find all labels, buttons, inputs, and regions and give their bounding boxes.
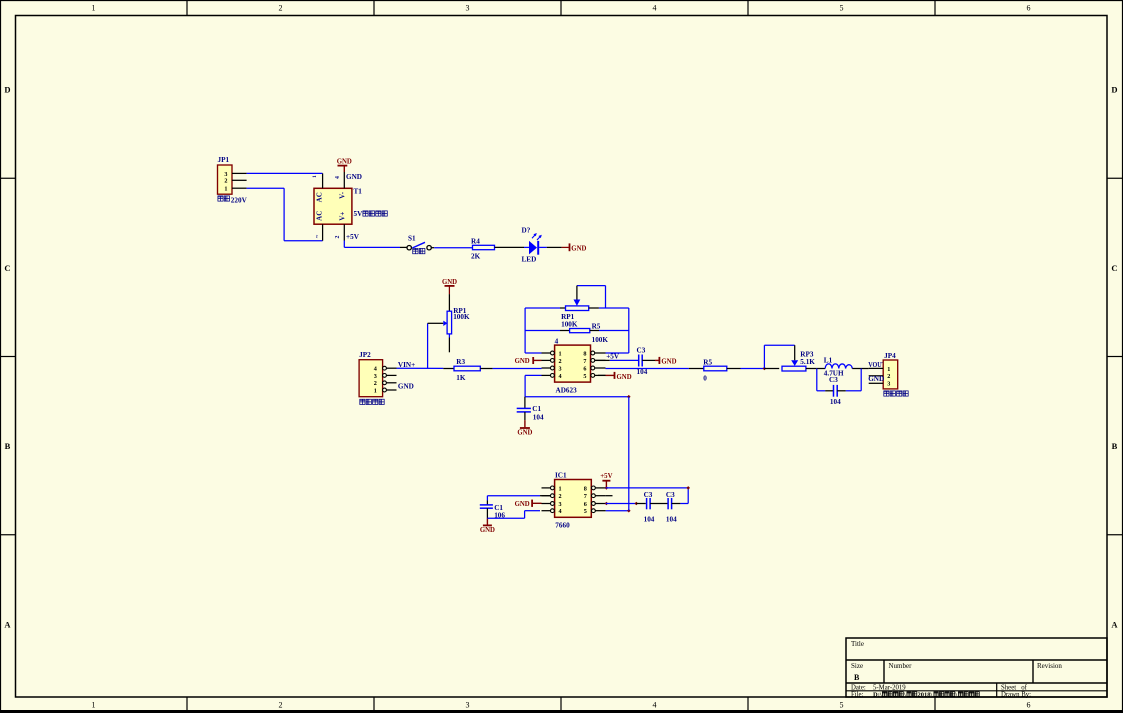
svg-text:5V: 5V bbox=[354, 210, 364, 218]
svg-text:220V: 220V bbox=[231, 196, 248, 204]
svg-text:6: 6 bbox=[1027, 4, 1031, 13]
svg-text:AC: AC bbox=[316, 211, 324, 221]
svg-text:2: 2 bbox=[559, 358, 562, 365]
svg-text:2: 2 bbox=[559, 493, 562, 500]
svg-text:A: A bbox=[1111, 619, 1118, 629]
svg-text:V+: V+ bbox=[339, 212, 347, 221]
svg-text:6: 6 bbox=[1027, 701, 1031, 710]
svg-text:100K: 100K bbox=[592, 336, 609, 344]
svg-text:C3: C3 bbox=[637, 347, 646, 355]
svg-text:GND: GND bbox=[346, 173, 362, 181]
svg-text:1: 1 bbox=[559, 485, 562, 492]
svg-text:GND: GND bbox=[515, 501, 530, 508]
svg-text:AC: AC bbox=[316, 192, 324, 202]
svg-text:4: 4 bbox=[374, 366, 377, 373]
svg-text:4: 4 bbox=[559, 373, 562, 380]
svg-text:5: 5 bbox=[840, 701, 844, 710]
svg-text:GND: GND bbox=[617, 374, 632, 381]
svg-text:4: 4 bbox=[653, 4, 657, 13]
svg-text:2: 2 bbox=[224, 178, 227, 185]
svg-text:JP2: JP2 bbox=[359, 351, 371, 359]
svg-text:+5V: +5V bbox=[606, 353, 620, 361]
svg-text:1: 1 bbox=[92, 701, 96, 710]
svg-text:S1: S1 bbox=[408, 235, 416, 243]
svg-text:3: 3 bbox=[466, 701, 470, 710]
svg-text:2: 2 bbox=[279, 4, 283, 13]
svg-text:\: \ bbox=[903, 691, 906, 698]
svg-text:C: C bbox=[4, 263, 10, 273]
svg-text:Size: Size bbox=[851, 662, 863, 670]
svg-text:Number: Number bbox=[889, 662, 913, 670]
svg-text:2018\: 2018\ bbox=[918, 691, 933, 698]
svg-text:7660: 7660 bbox=[555, 521, 570, 529]
svg-text:104: 104 bbox=[830, 398, 841, 406]
svg-text:4: 4 bbox=[653, 701, 657, 710]
svg-text:3: 3 bbox=[559, 501, 562, 508]
svg-text:1: 1 bbox=[312, 175, 318, 178]
svg-text:Revision: Revision bbox=[1037, 662, 1062, 670]
svg-text:D:\: D:\ bbox=[873, 691, 882, 698]
svg-text:2: 2 bbox=[374, 380, 377, 387]
svg-text:C3: C3 bbox=[666, 491, 675, 499]
svg-text:B: B bbox=[854, 673, 860, 682]
svg-text:GND: GND bbox=[571, 245, 586, 252]
svg-text:3: 3 bbox=[374, 373, 377, 380]
svg-text:1: 1 bbox=[887, 366, 890, 373]
svg-text:3: 3 bbox=[887, 381, 890, 388]
svg-text:104: 104 bbox=[666, 516, 677, 524]
svg-text:GND: GND bbox=[517, 430, 532, 437]
svg-text:C3: C3 bbox=[644, 491, 653, 499]
svg-text:+5V: +5V bbox=[346, 233, 360, 241]
svg-text:GND: GND bbox=[515, 358, 530, 365]
svg-text:L1: L1 bbox=[824, 356, 833, 364]
svg-text:3: 3 bbox=[466, 4, 470, 13]
svg-text:T1: T1 bbox=[354, 188, 363, 196]
svg-text:6: 6 bbox=[584, 501, 587, 508]
svg-text:B: B bbox=[1112, 441, 1118, 451]
svg-text:JP4: JP4 bbox=[884, 352, 896, 360]
svg-text:4: 4 bbox=[555, 337, 559, 345]
svg-text:104: 104 bbox=[637, 368, 648, 376]
svg-text:8: 8 bbox=[583, 350, 586, 357]
svg-text:R5: R5 bbox=[592, 322, 601, 330]
svg-text:GND: GND bbox=[661, 358, 676, 365]
svg-text:5: 5 bbox=[583, 373, 586, 380]
svg-text:D: D bbox=[4, 85, 10, 95]
svg-text:8: 8 bbox=[584, 485, 587, 492]
svg-text:GND: GND bbox=[868, 375, 884, 383]
svg-text:File:: File: bbox=[851, 691, 864, 698]
svg-text:Drawn By:: Drawn By: bbox=[1001, 691, 1031, 698]
svg-text:1: 1 bbox=[224, 186, 227, 193]
svg-text:5.1K: 5.1K bbox=[800, 358, 815, 366]
svg-text:C1: C1 bbox=[532, 405, 541, 413]
svg-text:AD623: AD623 bbox=[556, 386, 578, 394]
svg-text:2K: 2K bbox=[471, 253, 481, 261]
svg-text:\: \ bbox=[955, 691, 958, 698]
svg-text:JP1: JP1 bbox=[218, 156, 230, 164]
svg-text:0: 0 bbox=[703, 374, 707, 382]
svg-text:7: 7 bbox=[583, 358, 586, 365]
svg-text:4: 4 bbox=[559, 508, 562, 515]
svg-text:GND: GND bbox=[480, 527, 495, 534]
svg-text:GND: GND bbox=[398, 383, 414, 391]
svg-text:104: 104 bbox=[533, 413, 544, 421]
svg-text:R4: R4 bbox=[471, 237, 480, 245]
svg-text:LED: LED bbox=[522, 255, 537, 263]
svg-text:B: B bbox=[5, 441, 11, 451]
svg-text:A: A bbox=[4, 619, 11, 629]
svg-text:D?: D? bbox=[522, 227, 531, 235]
svg-text:100K: 100K bbox=[453, 313, 470, 321]
svg-text:Title: Title bbox=[851, 640, 864, 648]
svg-text:IC1: IC1 bbox=[555, 472, 567, 480]
svg-text:4: 4 bbox=[335, 176, 341, 179]
svg-text:C3: C3 bbox=[829, 376, 838, 384]
svg-text:+5V: +5V bbox=[600, 473, 612, 480]
svg-text:6: 6 bbox=[583, 365, 586, 372]
svg-text:5: 5 bbox=[584, 508, 587, 515]
svg-text:1: 1 bbox=[92, 4, 96, 13]
svg-text:1: 1 bbox=[559, 350, 562, 357]
svg-text:2: 2 bbox=[279, 701, 283, 710]
svg-text:R3: R3 bbox=[456, 358, 465, 366]
svg-text:C: C bbox=[1111, 263, 1117, 273]
svg-text:5: 5 bbox=[840, 4, 844, 13]
svg-text:104: 104 bbox=[644, 516, 655, 524]
svg-text:GND: GND bbox=[442, 279, 457, 286]
svg-text:V-: V- bbox=[339, 191, 347, 199]
svg-text:2: 2 bbox=[887, 373, 890, 380]
svg-text:1K: 1K bbox=[456, 374, 466, 382]
svg-text:GND: GND bbox=[337, 159, 352, 166]
svg-text:3: 3 bbox=[559, 365, 562, 372]
svg-text:7: 7 bbox=[584, 493, 587, 500]
svg-text:100K: 100K bbox=[561, 320, 578, 328]
svg-text:R5: R5 bbox=[703, 358, 712, 366]
svg-text:1: 1 bbox=[374, 387, 377, 394]
svg-text:2: 2 bbox=[335, 235, 341, 238]
svg-text:D: D bbox=[1111, 85, 1117, 95]
